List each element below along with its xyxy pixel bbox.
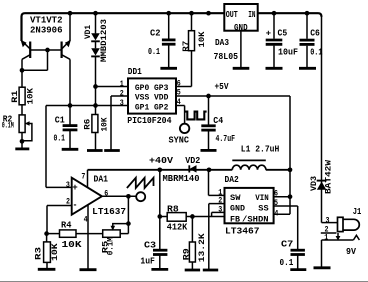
svg-text:R9: R9 xyxy=(183,248,192,260)
svg-text:412K: 412K xyxy=(167,223,188,233)
svg-text:VD3: VD3 xyxy=(310,176,319,191)
svg-text:R4: R4 xyxy=(61,220,72,230)
svg-text:+: + xyxy=(72,183,78,193)
svg-text:MBRM140: MBRM140 xyxy=(163,174,200,184)
svg-text:13.2K: 13.2K xyxy=(198,233,207,262)
svg-text:10uF: 10uF xyxy=(278,47,298,57)
svg-text:VT1VT2: VT1VT2 xyxy=(30,16,63,26)
svg-text:LT3467: LT3467 xyxy=(225,227,260,237)
svg-text:VSS VDD: VSS VDD xyxy=(135,93,169,103)
svg-text:10K: 10K xyxy=(27,88,36,105)
svg-text:SS: SS xyxy=(258,204,268,214)
svg-text:9V: 9V xyxy=(346,247,357,257)
svg-text:VD1: VD1 xyxy=(84,25,93,39)
svg-text:3: 3 xyxy=(120,99,124,108)
svg-text:0.1M: 0.1M xyxy=(107,237,116,255)
svg-text:6: 6 xyxy=(274,190,278,199)
svg-text:4: 4 xyxy=(274,209,278,218)
svg-text:+5V: +5V xyxy=(215,82,230,92)
svg-text:+: + xyxy=(266,29,272,38)
svg-text:6: 6 xyxy=(104,190,108,199)
svg-text:OUT: OUT xyxy=(226,10,238,20)
svg-text:L1 2.7uH: L1 2.7uH xyxy=(241,144,279,154)
svg-text:DA2: DA2 xyxy=(225,175,239,185)
svg-text:C1: C1 xyxy=(55,116,66,126)
svg-text:+40V: +40V xyxy=(149,156,174,166)
svg-text:3: 3 xyxy=(66,181,70,190)
svg-text:10K: 10K xyxy=(198,31,207,47)
svg-text:2: 2 xyxy=(218,197,222,206)
svg-text:4: 4 xyxy=(84,216,88,225)
svg-text:2N3906: 2N3906 xyxy=(30,25,63,35)
svg-text:3: 3 xyxy=(218,206,222,215)
svg-text:/SHDN: /SHDN xyxy=(242,214,269,224)
svg-text:0.1: 0.1 xyxy=(280,258,294,268)
svg-text:C5: C5 xyxy=(278,28,288,38)
svg-text:R7: R7 xyxy=(182,41,191,52)
svg-text:DA3: DA3 xyxy=(215,38,229,48)
svg-text:1: 1 xyxy=(120,80,124,89)
svg-text:10K: 10K xyxy=(62,240,83,250)
svg-text:0.1: 0.1 xyxy=(54,134,66,144)
svg-text:LT1637: LT1637 xyxy=(92,207,126,217)
svg-text:0.1: 0.1 xyxy=(148,47,160,57)
svg-text:SW: SW xyxy=(230,193,241,203)
svg-text:10K: 10K xyxy=(100,117,109,131)
svg-text:C2: C2 xyxy=(150,29,161,39)
svg-text:MMBD1203: MMBD1203 xyxy=(100,19,109,62)
svg-text:C4: C4 xyxy=(213,116,223,126)
svg-text:5: 5 xyxy=(274,199,278,208)
svg-text:R3: R3 xyxy=(34,247,43,260)
svg-text:IN: IN xyxy=(248,10,255,20)
svg-text:R1: R1 xyxy=(11,90,20,103)
svg-text:BAT42W: BAT42W xyxy=(324,159,334,194)
svg-text:GP0 GP3: GP0 GP3 xyxy=(135,83,169,93)
svg-text:DA1: DA1 xyxy=(94,175,109,185)
svg-text:7: 7 xyxy=(81,173,85,182)
svg-text:C6: C6 xyxy=(310,28,320,38)
svg-text:VD2: VD2 xyxy=(185,156,200,166)
svg-text:1uF: 1uF xyxy=(140,256,155,266)
svg-text:10K: 10K xyxy=(51,243,60,261)
svg-text:DD1: DD1 xyxy=(128,67,143,77)
svg-text:SYNC: SYNC xyxy=(169,135,190,145)
svg-text:GP1 GP2: GP1 GP2 xyxy=(135,103,169,113)
svg-text:1: 1 xyxy=(324,234,328,243)
svg-text:2: 2 xyxy=(120,90,124,99)
svg-text:-: - xyxy=(73,200,78,210)
svg-text:4.7uF: 4.7uF xyxy=(216,134,236,144)
svg-text:78L05: 78L05 xyxy=(214,52,239,62)
svg-text:C3: C3 xyxy=(144,240,156,250)
svg-text:R8: R8 xyxy=(167,204,179,214)
svg-text:J1: J1 xyxy=(353,207,362,217)
svg-text:GND: GND xyxy=(230,204,245,214)
svg-text:VIN: VIN xyxy=(255,193,268,203)
svg-text:FB: FB xyxy=(230,214,240,224)
svg-text:C7: C7 xyxy=(281,239,293,249)
svg-text:0.1M: 0.1M xyxy=(2,122,14,131)
svg-text:R6: R6 xyxy=(83,119,92,130)
svg-text:2: 2 xyxy=(66,198,70,207)
svg-text:3: 3 xyxy=(326,216,330,225)
svg-text:PIC10F204: PIC10F204 xyxy=(127,116,172,126)
